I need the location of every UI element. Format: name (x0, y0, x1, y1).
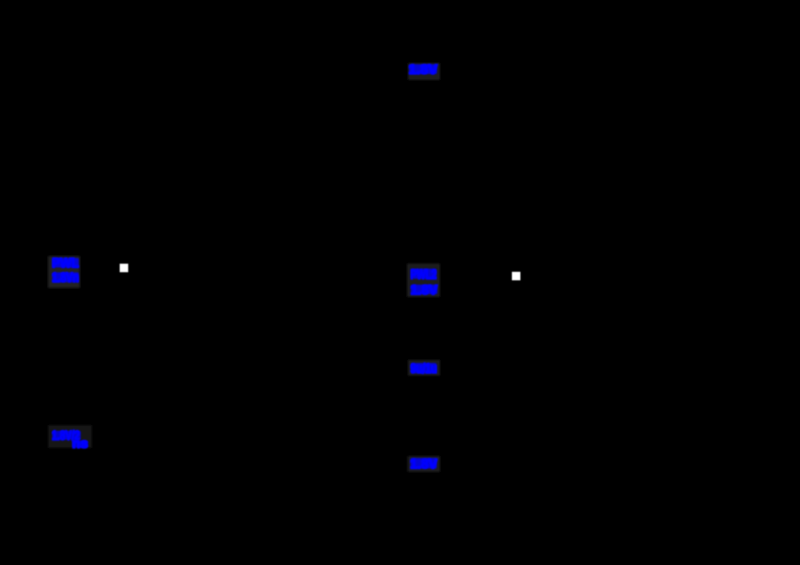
net label VSS 1.8V (halo) (408, 456, 441, 472)
pin IN (port square) (120, 264, 129, 273)
net label VDD 1.8V (halo) (408, 63, 440, 80)
source V2 value 1.8V (411, 285, 438, 295)
svg-text:1.8V: 1.8V (409, 61, 439, 77)
svg-text:1.8Vn: 1.8Vn (52, 269, 79, 285)
pin OUT (port square) (512, 272, 521, 281)
wire port OUT stub (520, 275, 540, 277)
svg-text:1.8V: 1.8V (410, 456, 438, 472)
wire input port IN to gate (128, 267, 400, 269)
net label out (halo) (408, 360, 440, 376)
svg-text:1.8V: 1.8V (410, 281, 438, 297)
wire mid node (423, 297, 425, 359)
source V1 value 1.8V (52, 272, 79, 282)
svg-text:9u/1u: 9u/1u (410, 360, 437, 376)
source V2 name PWL2 (411, 269, 437, 279)
net label VSS (410, 458, 436, 469)
source V1 name PWL (52, 258, 79, 268)
net label VDD 1.8V (409, 64, 437, 74)
source V1 params line 2 (72, 441, 88, 448)
wire VDD rail (node VDD to M1 drain) (423, 80, 425, 263)
svg-text:ns: ns (72, 435, 88, 451)
source V2 label (halo) (407, 264, 440, 298)
net label out (411, 363, 437, 373)
source V1 params line 1 (52, 431, 80, 440)
source V1 params 1.8V/2ns (halo) (48, 425, 92, 448)
svg-text:PWL2: PWL2 (410, 266, 436, 282)
source V1 label (halo) (48, 256, 80, 288)
wire out node (423, 376, 425, 455)
